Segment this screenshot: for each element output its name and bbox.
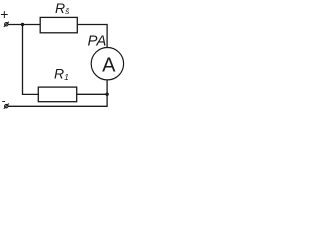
wire left rail bbox=[23, 25, 39, 95]
svg-text:PA: PA bbox=[88, 33, 107, 50]
resistor R1 bbox=[38, 87, 76, 102]
wire top bbox=[8, 24, 107, 26]
svg-text:A: A bbox=[102, 55, 116, 77]
svg-text:R1: R1 bbox=[54, 66, 69, 82]
terminal + bbox=[4, 22, 9, 27]
wire right rail upper bbox=[106, 24, 108, 48]
svg-text:+: + bbox=[0, 6, 8, 22]
wire right rail lower bbox=[8, 80, 107, 107]
node junction top bbox=[21, 23, 24, 26]
wire R1 row right bbox=[77, 93, 107, 95]
node junction right bbox=[105, 93, 108, 96]
svg-text:Rš: Rš bbox=[55, 0, 70, 16]
ammeter PA bbox=[91, 48, 123, 80]
resistor Rš bbox=[40, 17, 77, 32]
terminal − bbox=[4, 104, 9, 109]
